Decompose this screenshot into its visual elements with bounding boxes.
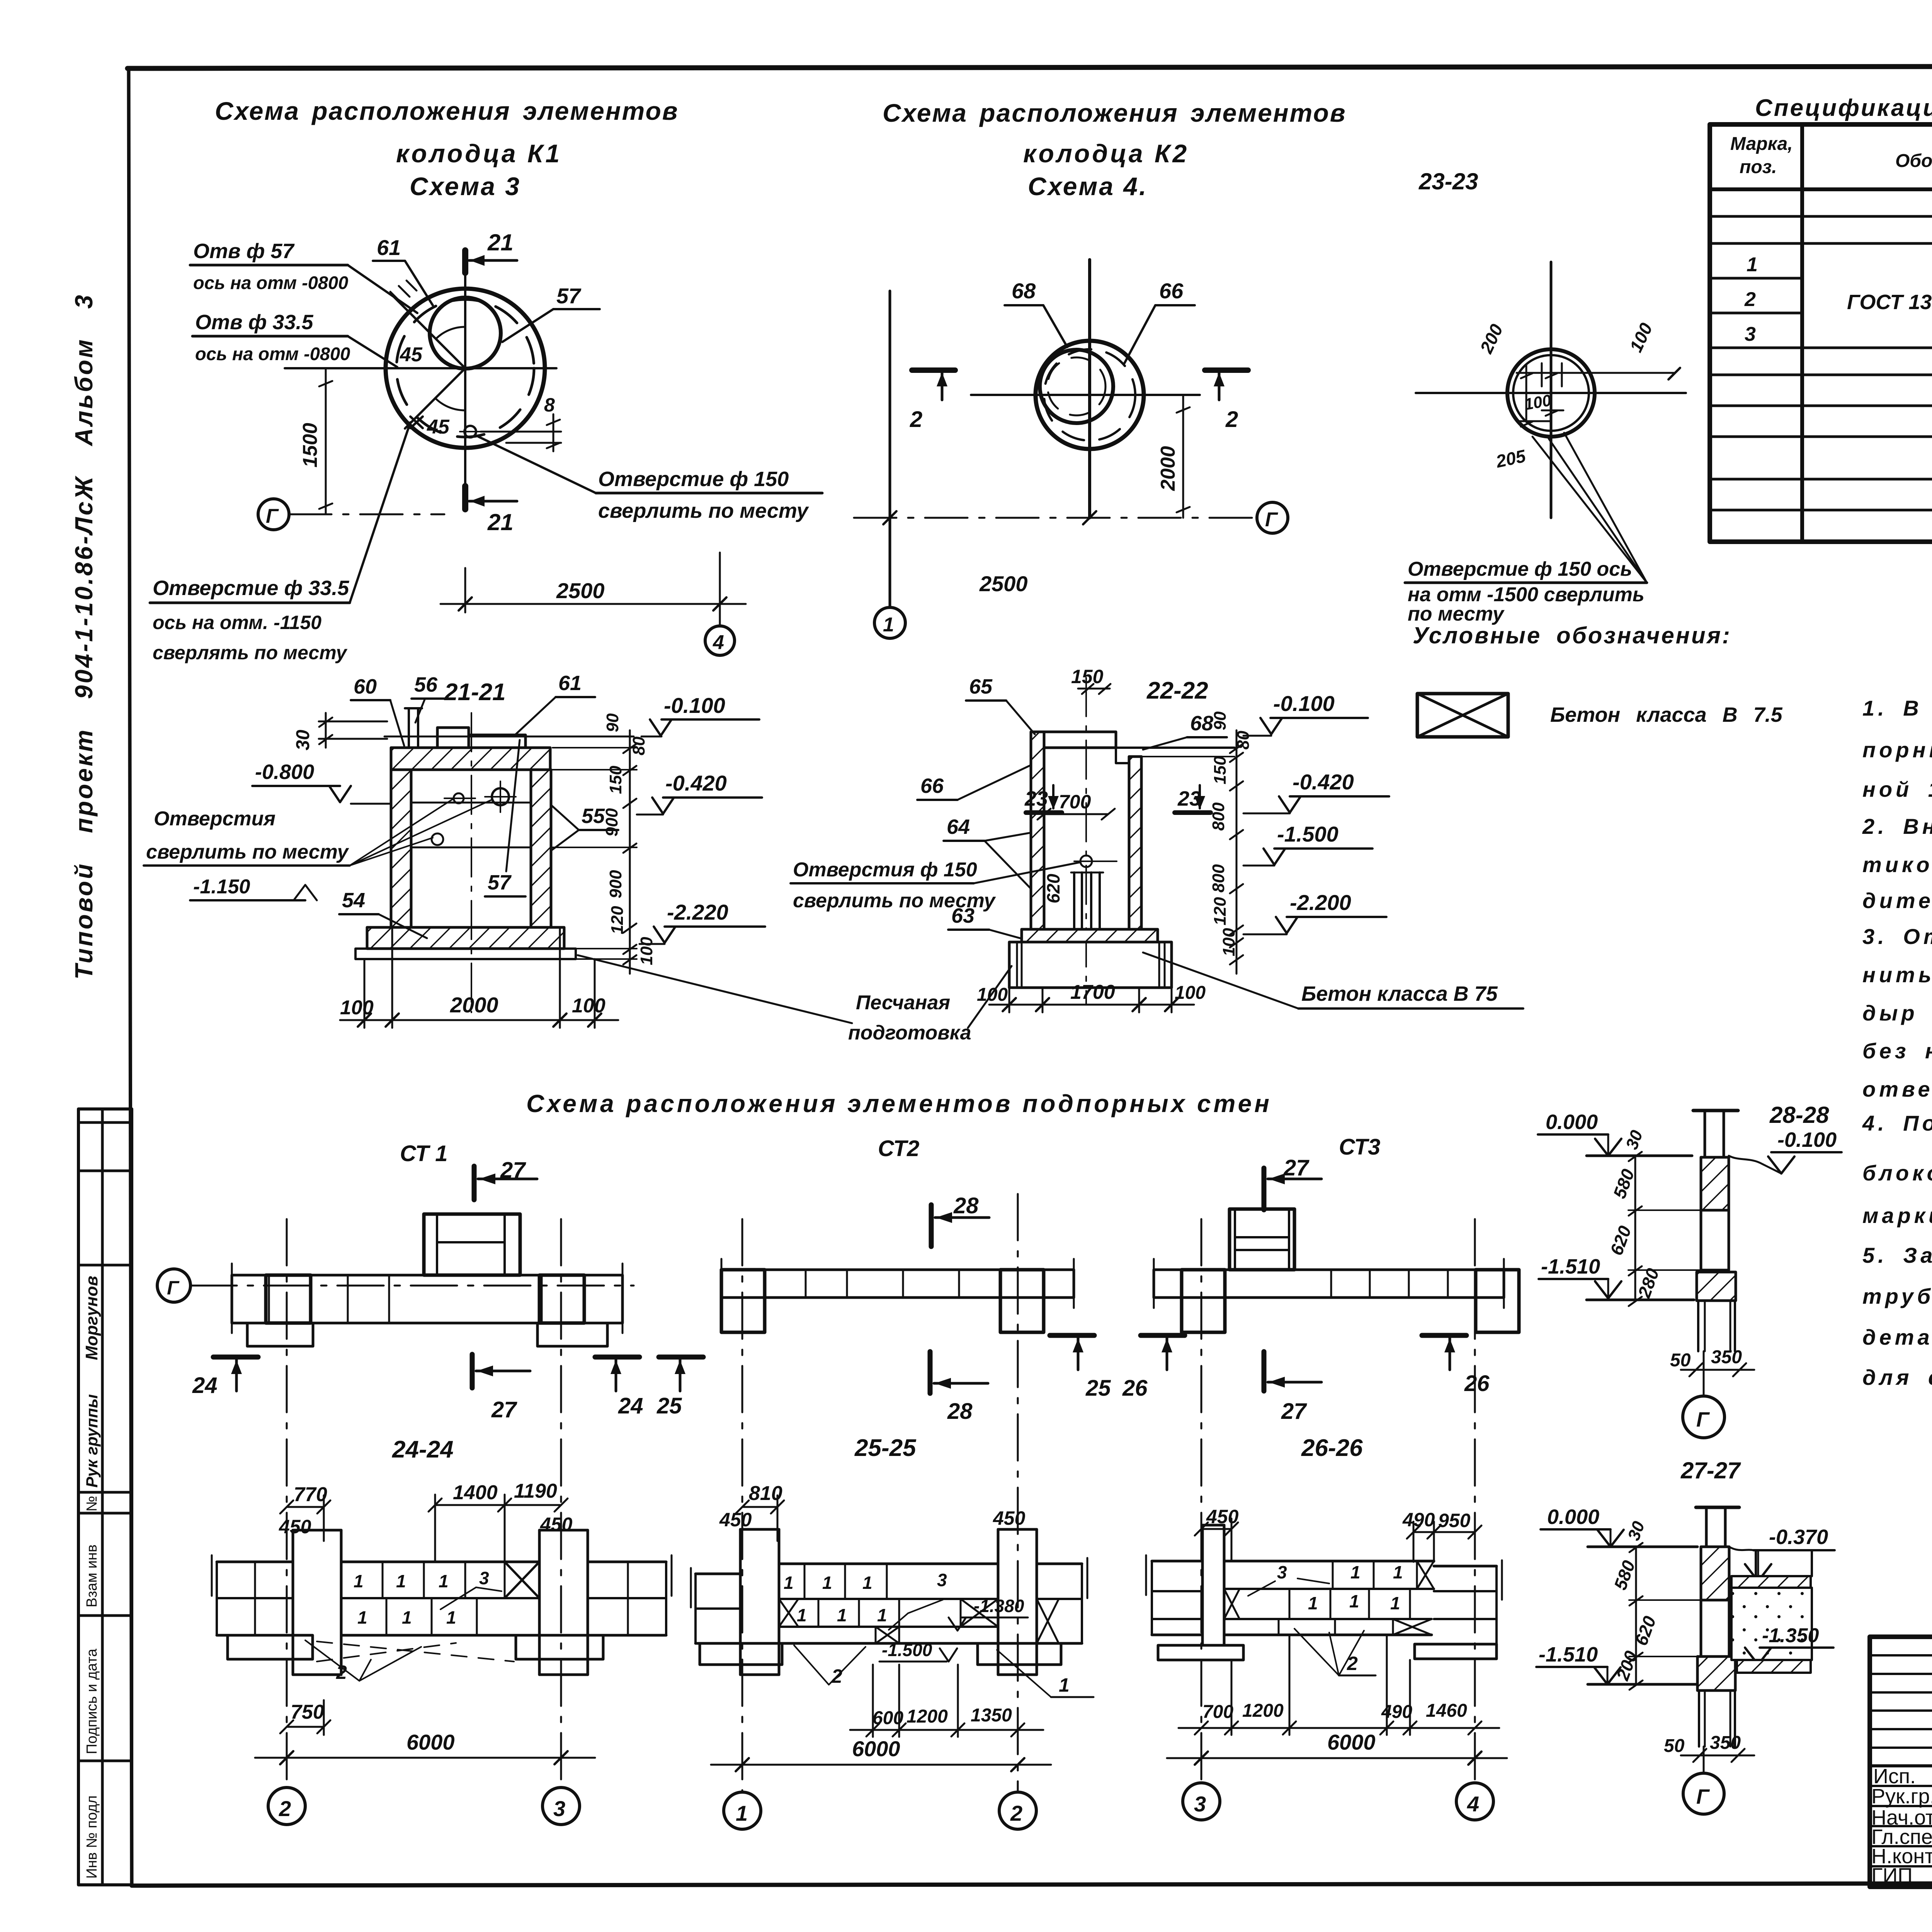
svg-text:28-28: 28-28 — [1769, 1102, 1829, 1128]
svg-text:Инв № подл: Инв № подл — [84, 1795, 100, 1879]
svg-text:сверлять по месту: сверлять по месту — [153, 642, 347, 663]
svg-text:Бетон класса В 7.5: Бетон класса В 7.5 — [1550, 703, 1783, 726]
svg-text:СТ2: СТ2 — [878, 1136, 919, 1161]
footings 25-25 — [700, 1643, 782, 1665]
mark 27 bottom CT1 — [470, 1354, 475, 1388]
svg-text:2: 2 — [910, 407, 922, 432]
main title block outer — [1870, 1637, 1932, 1887]
svg-text:1: 1 — [1059, 1674, 1070, 1696]
svg-text:26: 26 — [1122, 1376, 1148, 1401]
dim 100 right — [1573, 372, 1675, 374]
svg-text:деталям типового проекта: деталям типового проекта 901-09-11. 84 а… — [1862, 1325, 1932, 1349]
dashed joints below — [317, 1641, 514, 1662]
svg-text:3: 3 — [1745, 323, 1756, 345]
svg-text:350: 350 — [1711, 1347, 1742, 1367]
section mark 2 left — [912, 367, 955, 373]
K2 inner pipe dashed — [1048, 357, 1105, 415]
svg-text:750: 750 — [291, 1701, 324, 1723]
sheet left frame line — [129, 68, 132, 1886]
svg-text:-1.500: -1.500 — [1277, 822, 1338, 846]
svg-text:26: 26 — [1464, 1371, 1490, 1396]
svg-text:120: 120 — [1211, 897, 1230, 925]
K1 45 arc bottom — [435, 398, 465, 410]
svg-text:23-23: 23-23 — [1418, 168, 1478, 194]
svg-text:27: 27 — [491, 1397, 517, 1422]
svg-text:ГИП: ГИП — [1871, 1864, 1913, 1887]
dim 1500 vertical — [325, 368, 327, 514]
svg-text:2. Внутренние поверхно: 2. Внутренние поверхности колодца К1 пок… — [1862, 814, 1932, 838]
svg-text:Типовой проект 904-1-10.8: Типовой проект 904-1-10.86-ЛсЖ Альбом 3 — [70, 293, 98, 980]
header bottom line — [1710, 187, 1932, 191]
svg-text:90: 90 — [603, 713, 622, 732]
svg-text:450: 450 — [279, 1516, 311, 1537]
concrete dotted block — [1731, 1588, 1812, 1660]
svg-text:СТ3: СТ3 — [1339, 1134, 1380, 1160]
svg-text:28: 28 — [953, 1193, 979, 1218]
svg-text:54: 54 — [342, 889, 365, 912]
svg-text:4. Подпорные стены за: 4. Подпорные стены запроектированы из фу… — [1862, 1111, 1932, 1135]
svg-text:ной 100 мм.: ной 100 мм. — [1862, 777, 1932, 801]
svg-text:Бетон класса В 75: Бетон класса В 75 — [1301, 982, 1498, 1005]
axis 1 vertical line — [889, 291, 891, 607]
ground line top — [1588, 1546, 1697, 1548]
svg-text:по месту: по месту — [1408, 603, 1505, 625]
axis 1 line — [742, 1219, 743, 1791]
K2 horizontal centerline — [971, 394, 1200, 396]
table outer box — [1710, 124, 1932, 542]
svg-text:100: 100 — [1175, 983, 1206, 1003]
axis 2 line — [286, 1219, 288, 1787]
svg-text:поз.: поз. — [1740, 157, 1777, 177]
section mark 2 right — [1205, 367, 1248, 373]
svg-text:30: 30 — [293, 730, 313, 750]
right wing rows 26-26 — [1434, 1565, 1497, 1568]
svg-text:450: 450 — [993, 1507, 1026, 1529]
svg-text:2500: 2500 — [556, 578, 605, 603]
lid step right — [1116, 748, 1136, 763]
svg-text:Схема расположения элементов: Схема расположения элементов подпорных с… — [526, 1090, 1272, 1117]
column lower thin part — [1697, 1301, 1699, 1351]
K2 vertical centerline — [1088, 260, 1091, 518]
svg-text:отверстия заделать бе: отверстия заделать бетоном марки 100. — [1862, 1077, 1932, 1101]
axis Г dash-dot line — [289, 514, 444, 515]
svg-text:950: 950 — [1438, 1510, 1471, 1531]
mark 28 bottom CT2 — [928, 1352, 933, 1393]
sand base strip — [355, 949, 576, 959]
K1 vertical centerline — [464, 251, 466, 509]
svg-text:1. В качестве подготовк: 1. В качестве подготовки под колодцы К1 … — [1862, 696, 1932, 720]
svg-text:-1.380: -1.380 — [974, 1596, 1024, 1616]
axis circle 1 — [724, 1792, 761, 1829]
svg-text:блоков , укладываемых на: блоков , укладываемых на цементно-песчан… — [1862, 1161, 1932, 1185]
svg-text:-1.510: -1.510 — [1539, 1643, 1598, 1666]
svg-text:800: 800 — [1209, 802, 1228, 831]
svg-text:50: 50 — [1664, 1736, 1685, 1756]
svg-text:450: 450 — [540, 1514, 573, 1535]
svg-text:1190: 1190 — [514, 1480, 557, 1502]
mark 24 left CT1 — [213, 1355, 258, 1360]
svg-text:1: 1 — [797, 1605, 807, 1625]
left wing rows 26-26 — [1152, 1560, 1202, 1563]
axis 3 line — [560, 1219, 562, 1787]
stamp column row lines — [78, 1121, 132, 1124]
svg-text:Схема расположения элементов: Схема расположения элементов — [883, 99, 1347, 127]
left wall hatched — [391, 770, 411, 927]
svg-text:27: 27 — [1283, 1155, 1310, 1180]
footings 24-24 — [228, 1635, 313, 1659]
svg-text:ось на отм -0800: ось на отм -0800 — [193, 272, 348, 293]
svg-text:770: 770 — [294, 1483, 327, 1506]
right hatched thin band — [1731, 1576, 1811, 1588]
svg-text:65: 65 — [969, 675, 993, 698]
bottom dims — [1009, 988, 1010, 1012]
svg-text:68: 68 — [1012, 279, 1036, 303]
svg-text:27-27: 27-27 — [1680, 1458, 1741, 1483]
svg-text:66: 66 — [1159, 279, 1184, 303]
K1 diagonal 45 up-left — [391, 294, 465, 368]
svg-text:64: 64 — [947, 815, 970, 838]
svg-text:порные стены используется п: порные стены используется песчаная подсы… — [1862, 738, 1932, 762]
svg-text:Г: Г — [167, 1277, 180, 1299]
svg-text:Отверстие ф 150: Отверстие ф 150 — [598, 468, 789, 491]
svg-text:100: 100 — [340, 997, 374, 1019]
svg-text:Г: Г — [266, 505, 279, 527]
svg-text:150: 150 — [1211, 756, 1230, 784]
svg-text:Спецификация к схеме рас: Спецификация к схеме расположения подпор… — [1755, 95, 1932, 121]
svg-text:3: 3 — [937, 1570, 947, 1590]
svg-text:2: 2 — [1225, 407, 1238, 432]
bottom slab hatched — [367, 927, 564, 949]
svg-text:1: 1 — [1390, 1593, 1400, 1613]
svg-text:27: 27 — [1281, 1399, 1307, 1424]
svg-text:Взам инв: Взам инв — [84, 1544, 100, 1607]
ground double line right — [1116, 747, 1235, 749]
svg-text:1: 1 — [883, 614, 894, 636]
K2 inner pipe circle — [1040, 350, 1113, 423]
vent pipe — [408, 708, 410, 748]
svg-text:50: 50 — [1670, 1350, 1691, 1371]
svg-text:колодца К1: колодца К1 — [396, 139, 562, 168]
column white block — [1701, 1210, 1729, 1270]
svg-text:марки 100.: марки 100. — [1862, 1203, 1932, 1228]
sheet top frame line — [128, 66, 1932, 68]
axis circle 3 — [543, 1787, 580, 1825]
svg-text:90: 90 — [1211, 711, 1230, 730]
axis Г circle 28-28 — [1703, 1351, 1705, 1396]
svg-text:1700: 1700 — [1070, 981, 1115, 1003]
dim 2500 bottom — [883, 511, 1096, 524]
svg-text:2: 2 — [1347, 1653, 1358, 1674]
svg-text:для сухих грунтов.: для сухих грунтов. — [1862, 1365, 1932, 1389]
CT3 strip end ticks — [1153, 1259, 1155, 1308]
dim 2500 — [464, 568, 466, 612]
mark 24 right CT1 + 25 left CT2 — [595, 1355, 639, 1360]
svg-text:-1.500: -1.500 — [882, 1640, 932, 1660]
ground level line — [384, 736, 634, 738]
right wall hatched — [1129, 757, 1141, 929]
top slab — [1044, 732, 1116, 748]
svg-text:66: 66 — [920, 774, 944, 798]
ground line bottom — [1587, 1299, 1694, 1301]
svg-text:2500: 2500 — [979, 571, 1028, 596]
left wing rows — [696, 1573, 740, 1575]
svg-text:1: 1 — [1349, 1591, 1359, 1611]
svg-text:сверлить по месту: сверлить по месту — [146, 841, 350, 863]
svg-text:-0.100: -0.100 — [1273, 691, 1335, 716]
column white block — [1701, 1600, 1729, 1656]
svg-text:450: 450 — [719, 1509, 752, 1531]
svg-text:2000: 2000 — [1157, 446, 1179, 491]
23-23 vertical centerline — [1550, 262, 1553, 518]
mark 27 top CT3 — [1262, 1168, 1267, 1210]
svg-text:1200: 1200 — [906, 1706, 948, 1727]
svg-text:Отверстие ф 150 ось: Отверстие ф 150 ось — [1408, 558, 1632, 580]
svg-text:Моргунов: Моргунов — [82, 1276, 101, 1360]
mark 28 top CT2 — [929, 1205, 934, 1247]
left dim chain 28-28 — [1634, 1156, 1636, 1301]
axis circle 4 — [1456, 1783, 1493, 1820]
svg-text:80: 80 — [1234, 731, 1253, 750]
svg-text:1: 1 — [877, 1605, 887, 1625]
X blocks 25-25 — [779, 1599, 798, 1627]
svg-text:700: 700 — [1059, 791, 1091, 813]
svg-text:900: 900 — [606, 870, 625, 898]
right apron band — [1756, 1550, 1812, 1576]
svg-text:-1.350: -1.350 — [1762, 1624, 1819, 1647]
svg-text:100: 100 — [1219, 928, 1238, 956]
svg-text:1350: 1350 — [971, 1705, 1012, 1726]
CT1 right pier plan — [539, 1275, 584, 1323]
leaders to holes — [1532, 433, 1647, 583]
column hatched block 2 — [1697, 1656, 1735, 1690]
svg-text:100: 100 — [977, 985, 1008, 1005]
dim 8 — [481, 431, 561, 433]
K1 pipe circle d57 — [430, 298, 501, 369]
manhole cover plate — [469, 735, 526, 748]
pipe top — [1693, 1109, 1738, 1112]
svg-text:1400: 1400 — [453, 1481, 498, 1504]
svg-text:Отв ф 33.5: Отв ф 33.5 — [195, 311, 313, 334]
sheet bottom frame line — [132, 1883, 1932, 1886]
svg-text:56: 56 — [414, 673, 438, 696]
svg-text:6000: 6000 — [1327, 1730, 1376, 1754]
CT3 manhole shaft plan — [1230, 1209, 1294, 1270]
K1 hole mark x on dashed ring — [410, 417, 423, 428]
inner pipe — [1073, 872, 1075, 929]
svg-text:Исп.: Исп. — [1873, 1765, 1916, 1788]
svg-text:1: 1 — [837, 1605, 847, 1625]
mark 26 right CT3 — [1422, 1333, 1466, 1338]
dim 2000 vertical — [1182, 395, 1184, 518]
svg-text:1: 1 — [822, 1573, 832, 1593]
svg-text:1: 1 — [862, 1573, 872, 1593]
svg-text:1200: 1200 — [1242, 1701, 1284, 1721]
svg-text:26-26: 26-26 — [1301, 1435, 1363, 1461]
svg-text:3: 3 — [1277, 1562, 1287, 1582]
23-23 inner ring — [1513, 355, 1589, 431]
svg-text:дыр ф 20-25 мм с посл: дыр ф 20-25 мм с последующей выбивкой бе… — [1862, 1001, 1932, 1025]
svg-text:Подпись и дата: Подпись и дата — [84, 1648, 100, 1754]
bottom dim — [364, 959, 366, 1028]
vertical centerline — [471, 713, 472, 1012]
svg-text:55: 55 — [582, 804, 605, 828]
left pier column 26-26 — [1201, 1525, 1204, 1645]
row lines — [1710, 215, 1932, 218]
axis Г dash-dot horizontal — [854, 517, 1257, 519]
foundation block — [1009, 942, 1172, 988]
svg-text:Г: Г — [1265, 509, 1278, 531]
bottom slab hatched — [1022, 929, 1158, 942]
K1 45 arc top — [436, 327, 465, 339]
CT2 right pier — [1000, 1270, 1044, 1332]
svg-text:Рук группы: Рук группы — [83, 1394, 101, 1488]
right wing rows 25-25 — [1037, 1563, 1082, 1565]
svg-text:28: 28 — [947, 1399, 973, 1424]
axis circle 3b — [1183, 1783, 1220, 1820]
svg-text:3: 3 — [479, 1568, 489, 1588]
svg-text:1: 1 — [1308, 1593, 1318, 1613]
svg-text:150: 150 — [1071, 666, 1104, 687]
vertical centerline — [1085, 678, 1087, 1005]
svg-text:2000: 2000 — [450, 993, 498, 1017]
left stamp column box — [78, 1109, 132, 1885]
dim 700 inside — [1044, 813, 1108, 815]
mark 27 bottom CT3 — [1262, 1352, 1267, 1391]
hole circles inside — [454, 793, 464, 803]
axis 4 line — [1474, 1219, 1476, 1781]
bottom hatched band right — [1737, 1660, 1811, 1673]
svg-text:тикой на основе эпоксидн: тикой на основе эпоксидноп смолы ЭД-16 с… — [1862, 852, 1932, 877]
svg-text:21-21: 21-21 — [444, 679, 506, 706]
svg-text:Г: Г — [1696, 1408, 1710, 1431]
pipe top — [1696, 1506, 1739, 1509]
svg-text:Условные обозначения:: Условные обозначения: — [1413, 622, 1731, 648]
X block 24-24 — [505, 1562, 539, 1598]
svg-text:68: 68 — [1190, 712, 1213, 735]
svg-text:1: 1 — [357, 1607, 367, 1628]
svg-text:Отверстие ф 33.5: Отверстие ф 33.5 — [153, 577, 349, 600]
CT3 plan strip — [1154, 1270, 1504, 1298]
axis Г circle — [258, 499, 289, 530]
CT1 Г axis line — [190, 1285, 634, 1287]
K1 horizontal centerline — [285, 367, 556, 369]
svg-text:21: 21 — [487, 509, 514, 535]
svg-text:900: 900 — [602, 808, 621, 837]
CT1 plan strip — [232, 1275, 622, 1323]
svg-text:дителем по ГОСТ 10587-76.: дителем по ГОСТ 10587-76. — [1862, 888, 1932, 913]
svg-text:Обозначение: Обозначение — [1895, 151, 1932, 171]
svg-text:100: 100 — [637, 937, 656, 965]
svg-text:45: 45 — [400, 344, 423, 366]
K1 well inner ring dashed — [396, 299, 534, 437]
svg-text:22-22: 22-22 — [1146, 677, 1208, 704]
axis Г circle 27-27 — [1703, 1747, 1705, 1773]
svg-text:-0.370: -0.370 — [1769, 1526, 1828, 1549]
svg-text:Схема расположения элементов: Схема расположения элементов — [215, 97, 679, 125]
svg-text:ось на отм. -1150: ось на отм. -1150 — [153, 612, 321, 633]
svg-text:25: 25 — [656, 1393, 682, 1418]
svg-text:2: 2 — [1010, 1801, 1022, 1825]
svg-text:Отверстия: Отверстия — [154, 808, 276, 830]
ground line bottom — [1588, 1683, 1697, 1686]
svg-text:5. Заделку отверстий в: 5. Заделку отверстий в колодцах после пр… — [1862, 1243, 1932, 1267]
svg-text:61: 61 — [558, 672, 582, 695]
svg-text:3. Отверстия для: 3. Отверстия для пропуска труб в колодцы… — [1862, 924, 1932, 949]
column hatched block 1 — [1701, 1157, 1729, 1210]
K2 well dashed ring — [1044, 349, 1135, 440]
mark 26 left CT3 — [1141, 1333, 1185, 1338]
CT2 left corner block — [721, 1270, 765, 1332]
svg-text:-0.420: -0.420 — [1293, 770, 1354, 794]
left wall hatched — [1031, 732, 1044, 929]
svg-text:-1.150: -1.150 — [193, 876, 250, 898]
svg-text:2: 2 — [279, 1796, 291, 1821]
svg-text:СТ 1: СТ 1 — [400, 1141, 447, 1166]
svg-text:490: 490 — [1381, 1702, 1412, 1722]
hole circle — [1080, 855, 1092, 867]
svg-text:1: 1 — [446, 1607, 456, 1628]
svg-text:61: 61 — [377, 235, 401, 260]
svg-text:800: 800 — [1209, 864, 1228, 893]
svg-text:-0.100: -0.100 — [664, 693, 725, 718]
svg-text:0.000: 0.000 — [1546, 1111, 1598, 1134]
svg-text:25: 25 — [1085, 1376, 1111, 1401]
middle rows 25-25 — [779, 1563, 998, 1565]
svg-text:Схема 3: Схема 3 — [410, 172, 521, 201]
axis 4 circle — [705, 626, 735, 655]
svg-text:4: 4 — [713, 631, 724, 654]
right dim chain — [1236, 730, 1238, 974]
left wing rows — [217, 1561, 293, 1563]
svg-text:Схема 4.: Схема 4. — [1028, 172, 1148, 201]
column lower thin part — [1698, 1690, 1700, 1747]
ring joint lines — [411, 802, 531, 804]
svg-text:1: 1 — [354, 1571, 364, 1591]
svg-text:620: 620 — [1043, 874, 1063, 903]
axis circle 2b — [999, 1792, 1036, 1829]
section mark 21 bottom — [462, 486, 468, 509]
svg-text:23: 23 — [1024, 787, 1048, 810]
column hatched block 2 — [1697, 1272, 1736, 1301]
right pier column — [538, 1530, 541, 1675]
CT1 strip end ticks — [231, 1264, 233, 1333]
svg-text:№: № — [84, 1496, 100, 1512]
dim 30 left — [319, 721, 387, 723]
svg-text:Песчаная: Песчаная — [856, 992, 950, 1014]
svg-text:21: 21 — [487, 230, 514, 255]
svg-text:60: 60 — [354, 675, 377, 698]
K1 well outer ring — [386, 289, 545, 448]
svg-text:6000: 6000 — [406, 1730, 455, 1754]
axis circle 2 — [268, 1787, 305, 1825]
23-23 outer ring — [1507, 349, 1595, 437]
svg-text:25-25: 25-25 — [854, 1435, 917, 1461]
legend symbol concrete B7.5 — [1417, 694, 1508, 737]
axis 3b line — [1201, 1219, 1202, 1779]
svg-text:колодца К2: колодца К2 — [1023, 139, 1189, 168]
svg-text:45: 45 — [427, 416, 450, 438]
CT2 strip end ticks — [721, 1259, 723, 1308]
svg-text:8: 8 — [544, 394, 555, 416]
svg-text:-2.220: -2.220 — [667, 900, 728, 924]
manhole collar — [437, 728, 469, 748]
middle rows 26-26 — [1224, 1560, 1434, 1563]
dim chain right — [629, 730, 631, 974]
svg-text:3: 3 — [553, 1796, 565, 1821]
svg-text:24: 24 — [618, 1393, 643, 1418]
svg-text:1: 1 — [1747, 253, 1758, 276]
svg-text:-0.420: -0.420 — [665, 771, 727, 795]
